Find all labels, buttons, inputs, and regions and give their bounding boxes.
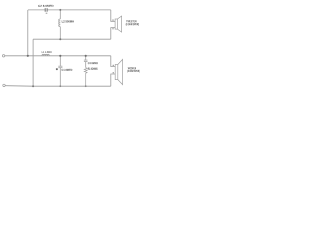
woofer speaker symbol <box>115 59 122 84</box>
capacitor C3 (zobel branch) <box>84 56 88 68</box>
wire tweeter return rail <box>33 38 111 40</box>
tweeter speaker symbol <box>115 16 122 32</box>
inductor L1 <box>42 54 49 55</box>
label C2 value <box>38 5 53 7</box>
wire bottom rail <box>5 85 111 88</box>
wire woofer feed drop <box>111 56 115 67</box>
node C1 bottom junction <box>59 85 61 87</box>
node L2 top junction <box>59 9 61 11</box>
tweeter terminal marks <box>112 20 113 21</box>
label woofer line2 <box>127 70 139 73</box>
capacitor C2 <box>45 8 47 12</box>
input terminal 1 <box>2 55 4 57</box>
input terminal 2 <box>3 84 5 86</box>
capacitor C1 (shunt branch) <box>58 56 62 86</box>
label C1 value <box>62 69 73 71</box>
value mark under C2 <box>46 13 48 14</box>
polarity blob near C1 <box>56 68 58 70</box>
node C1 top junction <box>59 55 61 57</box>
node L2 bottom junction <box>59 38 61 40</box>
label C3 value <box>88 62 98 64</box>
label tweeter line2 <box>126 23 139 26</box>
inductor L2 <box>59 10 61 39</box>
wire left vertical input+ to top rail <box>27 10 29 56</box>
wire tweeter return rise <box>111 28 115 40</box>
wire top rail right of C2 <box>47 9 110 11</box>
node input plus junction <box>27 55 29 57</box>
wire top rail left of C2 <box>28 9 45 11</box>
wire feed line <box>5 55 111 57</box>
wire left vertical return to bottom rail <box>32 39 34 86</box>
node R1 bottom junction <box>85 85 87 87</box>
label L2 value <box>62 20 74 22</box>
label woofer line1 <box>128 67 136 69</box>
node return bottom junction <box>32 85 34 87</box>
woofer terminal marks <box>113 65 114 66</box>
wire tweeter feed drop <box>111 10 115 21</box>
node C3 top junction <box>85 55 87 57</box>
label R1 value <box>88 68 98 70</box>
label L1 value <box>42 51 52 53</box>
resistor R1 <box>84 68 87 87</box>
wire woofer return rise <box>111 74 115 86</box>
label tweeter line1 <box>126 20 136 22</box>
